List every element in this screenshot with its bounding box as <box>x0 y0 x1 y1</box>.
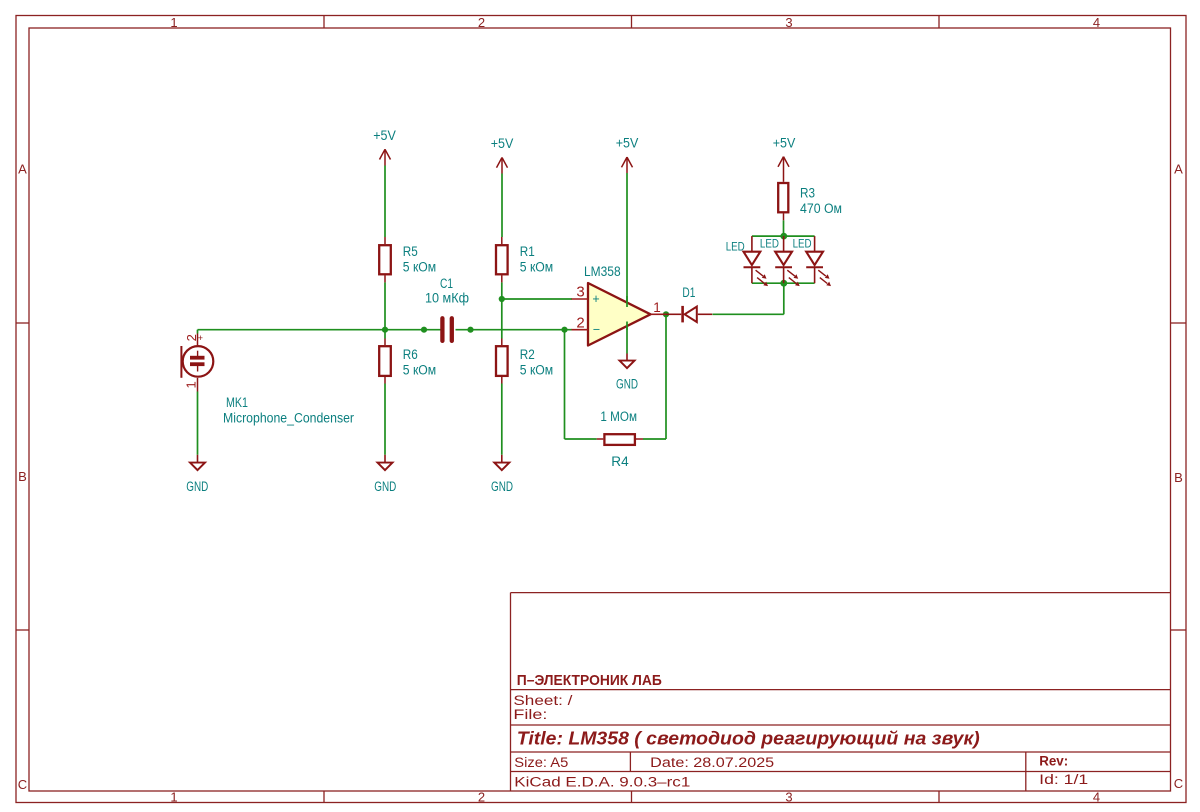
op-amp pin numbers 3 2 1 <box>576 284 660 332</box>
junction output <box>663 311 669 317</box>
junction pin2 <box>561 327 567 333</box>
svg-text:П–ЭЛЕКТРОНИК ЛАБ: П–ЭЛЕКТРОНИК ЛАБ <box>517 672 662 689</box>
svg-text:B: B <box>1174 470 1183 485</box>
svg-text:KiCad E.D.A. 9.0.3–rc1: KiCad E.D.A. 9.0.3–rc1 <box>514 775 690 790</box>
svg-text:LED: LED <box>793 237 812 251</box>
svg-text:1: 1 <box>183 381 198 388</box>
wire C1 to pin2 junction <box>456 329 573 331</box>
svg-text:LED: LED <box>760 237 779 251</box>
LED D3 <box>775 236 796 283</box>
wire R6 to GND <box>384 384 386 455</box>
ground mic <box>190 455 205 470</box>
junction cap right <box>467 327 473 333</box>
LED D2 <box>744 236 765 283</box>
svg-text:+5V: +5V <box>491 136 514 151</box>
svg-text:4: 4 <box>1093 15 1100 30</box>
wire feedback bottom left <box>565 438 597 440</box>
pin 3 stub <box>572 298 589 300</box>
pin 1 stub <box>651 313 667 315</box>
svg-text:2: 2 <box>478 15 485 30</box>
svg-text:Rev:: Rev: <box>1039 754 1068 769</box>
svg-text:+: + <box>198 333 203 343</box>
resistor R4 (horizontal) <box>597 434 643 445</box>
svg-text:+5V: +5V <box>773 136 796 151</box>
resistor R1 <box>496 237 508 282</box>
wire mic top <box>197 330 199 334</box>
svg-text:4: 4 <box>1093 790 1100 805</box>
wire output to feedback <box>665 314 667 439</box>
op-amp pin names + and - <box>592 292 600 337</box>
svg-text:R4: R4 <box>611 454 629 469</box>
+5V symbol above R5 <box>380 149 391 165</box>
wire R1 to R2 <box>501 282 503 338</box>
svg-text:3: 3 <box>785 790 792 805</box>
svg-text:LED: LED <box>726 239 745 253</box>
svg-text:R2: R2 <box>520 347 535 362</box>
svg-text:R1: R1 <box>520 244 535 259</box>
svg-text:Size: A5: Size: A5 <box>514 755 568 770</box>
svg-text:470 Ом: 470 Ом <box>800 201 842 216</box>
wire +5V to R1 <box>501 174 503 238</box>
svg-text:C: C <box>1174 776 1183 791</box>
svg-text:1: 1 <box>170 790 177 805</box>
+5V symbol above R1 <box>497 158 508 174</box>
junction LED top <box>780 233 787 240</box>
title block <box>511 593 1171 791</box>
diaphragm line <box>180 346 182 378</box>
svg-text:R5: R5 <box>403 244 418 259</box>
resistor R3 <box>778 183 788 220</box>
svg-text:10 мКф: 10 мКф <box>425 291 469 306</box>
wire opamp to GND <box>626 322 628 354</box>
pin 2 (top) <box>197 334 199 346</box>
svg-text:C1: C1 <box>440 276 453 291</box>
svg-text:Id: 1/1: Id: 1/1 <box>1039 772 1088 787</box>
svg-text:File:: File: <box>513 707 547 722</box>
wire V- inside op-amp <box>626 322 628 331</box>
ground R2 <box>494 455 509 470</box>
resistor R6 <box>379 339 391 384</box>
svg-text:1 МОм: 1 МОм <box>600 409 637 424</box>
svg-text:R3: R3 <box>800 186 815 201</box>
svg-text:R6: R6 <box>403 347 418 362</box>
svg-text:Date: 28.07.2025: Date: 28.07.2025 <box>650 755 774 770</box>
wire +5V to R5 <box>384 166 386 238</box>
svg-text:1: 1 <box>653 300 661 315</box>
ground R6 <box>378 455 393 470</box>
svg-text:3: 3 <box>576 284 584 301</box>
svg-text:+5V: +5V <box>373 128 396 143</box>
svg-text:Microphone_Condenser: Microphone_Condenser <box>223 411 354 426</box>
wire main horizontal mic to C1 <box>198 329 442 331</box>
junction pin3/R1R2 <box>499 296 505 302</box>
svg-text:Title: LM358 ( светодиод реаги: Title: LM358 ( светодиод реагирующий на … <box>517 729 980 749</box>
svg-text:GND: GND <box>491 479 513 494</box>
wire R5 to main <box>384 282 386 338</box>
svg-text:−: − <box>593 323 600 337</box>
+5V symbol above R3 <box>778 157 789 182</box>
wire feedback bottom right <box>643 438 666 440</box>
resistor R2 <box>496 339 508 384</box>
wire LED bottom rail <box>752 282 815 284</box>
svg-text:A: A <box>18 162 27 177</box>
ground op-amp <box>620 354 635 369</box>
svg-text:GND: GND <box>186 479 208 494</box>
svg-text:2: 2 <box>478 790 485 805</box>
plates <box>190 356 205 360</box>
svg-text:+: + <box>592 292 599 306</box>
wire LED bottom to diode wire <box>783 283 785 314</box>
svg-text:1: 1 <box>170 15 177 30</box>
svg-text:5 кОм: 5 кОм <box>520 260 553 275</box>
inner leads <box>197 351 199 356</box>
svg-text:B: B <box>18 469 27 484</box>
svg-text:LM358: LM358 <box>584 264 621 279</box>
svg-text:C: C <box>18 777 27 792</box>
svg-text:2: 2 <box>576 315 584 332</box>
svg-text:A: A <box>1174 162 1183 177</box>
wire R3 to LED top rail <box>783 220 785 236</box>
svg-text:D1: D1 <box>682 285 695 300</box>
svg-text:5 кОм: 5 кОм <box>403 260 436 275</box>
junction main/R5R6 <box>382 327 388 333</box>
wire mic bottom to GND <box>197 392 199 455</box>
mic labels MK1 / Microphone_Condenser <box>223 395 354 426</box>
wire feedback up <box>564 330 566 439</box>
svg-text:+5V: +5V <box>616 136 639 151</box>
pin 2 stub <box>572 329 589 331</box>
svg-text:GND: GND <box>616 377 638 392</box>
mic pin numbers <box>183 334 198 388</box>
wire LED top rail <box>752 235 815 237</box>
svg-text:5 кОм: 5 кОм <box>403 363 436 378</box>
junction cap left <box>421 327 427 333</box>
+5V symbol above op-amp <box>622 157 633 173</box>
resistor R5 <box>379 237 391 282</box>
wire V+ inside op-amp <box>626 296 628 307</box>
wire +5V to opamp <box>626 173 628 307</box>
svg-text:3: 3 <box>785 15 792 30</box>
svg-text:2: 2 <box>184 334 199 341</box>
svg-text:MK1: MK1 <box>226 395 248 410</box>
wire diode to LED <box>713 313 784 315</box>
wire pin3 <box>502 298 572 300</box>
junction LED bottom <box>780 280 787 287</box>
wire R2 to GND <box>501 384 503 455</box>
svg-text:5 кОм: 5 кОм <box>520 363 553 378</box>
svg-text:Sheet: /: Sheet: / <box>513 693 572 708</box>
junction dots <box>382 233 787 333</box>
body circle <box>183 346 214 377</box>
svg-text:GND: GND <box>374 479 396 494</box>
LED D4 <box>806 236 827 283</box>
pin 1 (bottom) <box>197 378 199 392</box>
